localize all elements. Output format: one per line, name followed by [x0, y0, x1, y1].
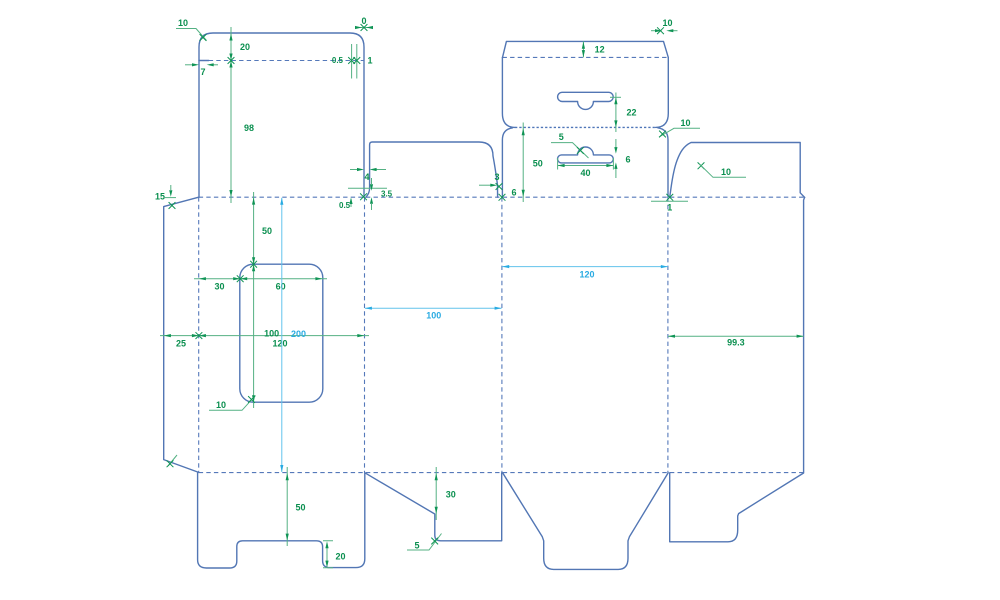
dim 50 / 100 vertical window	[250, 192, 272, 408]
svg-text:120: 120	[272, 339, 287, 349]
svg-text:50: 50	[533, 159, 543, 169]
dim 120 blue	[502, 265, 668, 280]
window panel 1	[240, 264, 323, 402]
leader 10 hang flap corner	[659, 118, 700, 137]
vertical fold 2	[364, 197, 366, 472]
dim 30 panel2 flap	[435, 467, 456, 520]
dim 12 tuck	[582, 41, 605, 57]
svg-text:12: 12	[595, 44, 605, 54]
dim 6 slot	[614, 139, 630, 178]
dim 15	[155, 185, 176, 209]
dim 3 / 6 cluster	[479, 172, 517, 201]
panel 2 bottom flap	[365, 473, 502, 541]
svg-text:3: 3	[494, 172, 499, 182]
dim 1 cluster	[651, 194, 688, 213]
svg-text:100: 100	[426, 310, 441, 320]
ticks 0.5 / 1	[332, 44, 373, 79]
bottom horizontal fold	[199, 472, 804, 474]
glue flap bottom mark	[167, 455, 177, 467]
svg-text:10: 10	[721, 167, 731, 177]
main horizontal fold	[199, 196, 805, 198]
svg-text:25: 25	[176, 339, 186, 349]
dim 200 blue	[280, 198, 306, 472]
svg-text:99.3: 99.3	[727, 338, 745, 348]
hang tab flap (above panel 3)	[502, 128, 512, 197]
svg-text:5: 5	[414, 541, 419, 551]
leader 10 flap4	[698, 162, 746, 177]
svg-text:20: 20	[240, 42, 250, 52]
dim 10 top right	[651, 18, 678, 34]
dim 100 blue	[365, 307, 502, 321]
svg-text:22: 22	[627, 107, 637, 117]
dim 4	[350, 168, 386, 182]
dim 3.5	[348, 178, 393, 210]
svg-text:60: 60	[276, 282, 286, 292]
svg-text:6: 6	[626, 154, 631, 164]
dim 20 bottom flap	[323, 541, 346, 568]
flap above panel 2	[366, 142, 498, 197]
dim 20 / 98 chain	[228, 27, 254, 203]
panel 1 bottom flap	[198, 473, 365, 568]
svg-text:4: 4	[364, 172, 369, 182]
svg-text:0.5: 0.5	[332, 56, 344, 65]
svg-text:50: 50	[296, 503, 306, 513]
vertical fold 3	[501, 197, 503, 472]
crease notch 7	[199, 60, 209, 62]
dim 0.5 lower	[339, 193, 367, 210]
svg-text:50: 50	[262, 226, 272, 236]
svg-text:0.5: 0.5	[339, 201, 351, 210]
dim 7	[185, 63, 218, 77]
svg-text:1: 1	[667, 203, 672, 213]
tuck fold	[503, 56, 669, 58]
vertical fold 1	[198, 197, 200, 472]
svg-text:120: 120	[579, 270, 594, 280]
svg-text:7: 7	[200, 67, 205, 77]
svg-text:0: 0	[361, 16, 366, 26]
dim 0 top	[355, 16, 373, 31]
svg-text:10: 10	[178, 18, 188, 28]
dim 30 / 60 window top	[194, 275, 327, 291]
dim 40 slot	[558, 158, 614, 178]
svg-text:30: 30	[446, 490, 456, 500]
leader 10 window corner	[209, 396, 256, 411]
lid bottom fold	[515, 126, 656, 128]
svg-text:10: 10	[216, 400, 226, 410]
svg-text:10: 10	[680, 118, 690, 128]
tuck flap top	[503, 41, 669, 57]
dim 25 / 120 horizontal	[160, 328, 369, 348]
svg-text:40: 40	[580, 168, 590, 178]
svg-text:5: 5	[559, 132, 564, 142]
dim 50 bottom flap	[286, 467, 306, 546]
dim 22	[610, 93, 637, 133]
svg-text:3.5: 3.5	[381, 190, 393, 199]
dust flap tall (above panel 1)	[199, 33, 364, 197]
svg-text:20: 20	[336, 552, 346, 562]
glue flap	[164, 197, 199, 472]
dim 10 top-left leader	[176, 18, 207, 41]
svg-text:10: 10	[662, 18, 672, 28]
lid panel sides	[502, 57, 515, 127]
dim 99.3	[668, 335, 804, 348]
dim 50 hang flap	[522, 123, 543, 203]
leader 5 panel2 flap	[407, 534, 442, 551]
lid hang hole	[558, 92, 614, 109]
svg-text:30: 30	[214, 282, 224, 292]
svg-text:98: 98	[244, 123, 254, 133]
vertical fold 4	[667, 197, 669, 472]
svg-text:100: 100	[264, 328, 279, 338]
crease tall flap	[209, 60, 364, 62]
hang flap hole	[558, 147, 614, 163]
svg-text:200: 200	[291, 329, 306, 339]
svg-text:1: 1	[368, 56, 373, 66]
panel 3 bottom flap	[503, 473, 669, 570]
svg-text:15: 15	[155, 192, 165, 202]
svg-text:6: 6	[512, 188, 517, 198]
panel 4 right edge + bottom flap	[670, 197, 805, 541]
flap above panel 4	[670, 143, 805, 198]
leader 5 slot	[551, 132, 589, 158]
